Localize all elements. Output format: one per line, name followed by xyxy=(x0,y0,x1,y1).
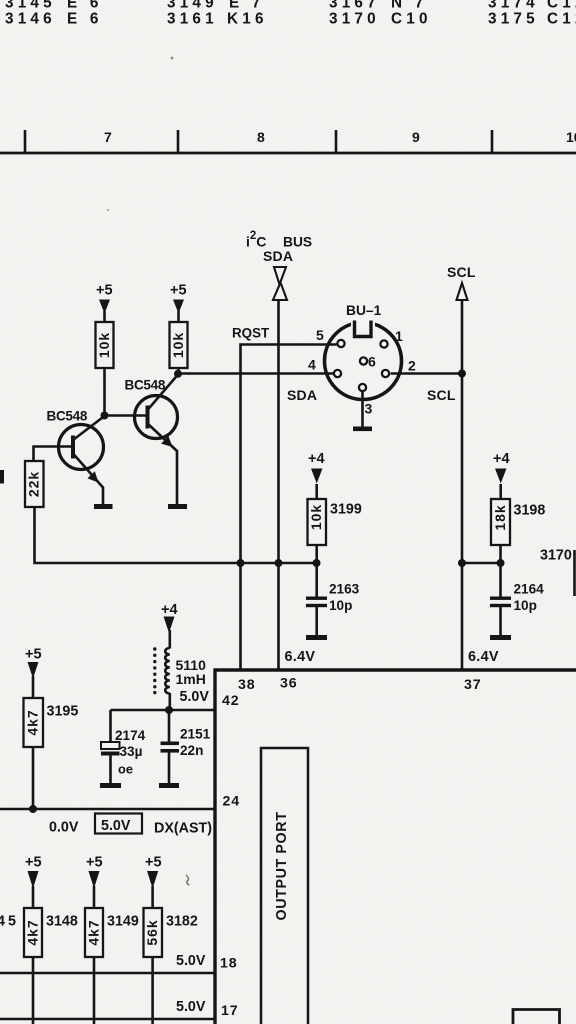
resistor 22k xyxy=(25,461,44,507)
svg-text:4k7: 4k7 xyxy=(25,709,41,735)
svg-text:22n: 22n xyxy=(180,743,203,758)
capacitor 2151 22n xyxy=(161,727,211,759)
sheet border ruler line xyxy=(0,152,576,155)
svg-text:5.0V: 5.0V xyxy=(180,689,210,705)
ground bar 2163 xyxy=(306,635,327,640)
ground bar pin 3 xyxy=(353,427,372,432)
svg-text:2151: 2151 xyxy=(180,727,211,742)
part table row1 col3: 3167 N 7 xyxy=(329,0,427,12)
wire R2 bottom to node xyxy=(177,368,180,374)
supply arrow +5 3149 xyxy=(89,871,100,889)
svg-text:3175: 3175 xyxy=(488,11,539,28)
svg-text:4k7: 4k7 xyxy=(24,919,40,945)
wire arrow to R 3182 xyxy=(151,886,154,908)
svg-text:18k: 18k xyxy=(492,504,508,530)
wire arrow to R 3195 xyxy=(32,676,35,698)
svg-text:3170: 3170 xyxy=(329,11,380,28)
supply arrow +4 #2 xyxy=(495,469,507,484)
junction node R2/collector/pin4 xyxy=(174,370,182,378)
scan speck 1 xyxy=(171,57,174,60)
resistor 3195 4k7 xyxy=(24,698,79,747)
svg-text:5: 5 xyxy=(316,327,324,343)
wire down to cap 2151 xyxy=(168,710,171,742)
svg-text:+5: +5 xyxy=(25,855,42,871)
boxed label 5.0V xyxy=(95,814,142,835)
wire RQST (pin5 to bus) xyxy=(241,345,337,671)
wire arrow to R2 xyxy=(177,311,180,322)
svg-text:10k: 10k xyxy=(170,332,186,358)
svg-text:1mH: 1mH xyxy=(176,671,206,687)
capacitor 2163 10p xyxy=(306,582,360,614)
wire pin4 to transistors xyxy=(178,372,333,375)
ground bar Q1 emitter xyxy=(94,504,113,509)
wire pin 18 horizontal xyxy=(0,972,215,975)
wire R1 bottom to node xyxy=(103,368,106,416)
svg-text:+5: +5 xyxy=(96,283,113,299)
svg-text:10p: 10p xyxy=(329,598,352,613)
supply arrow +4 coil xyxy=(164,617,175,634)
wire SDA vertical xyxy=(277,300,280,670)
svg-text:i2C: i2C xyxy=(246,230,266,250)
ground bar Q2 emitter xyxy=(168,504,187,509)
svg-text:3170: 3170 xyxy=(540,548,572,564)
wire cap 2163 to ground xyxy=(315,607,318,636)
svg-text:3161: 3161 xyxy=(167,11,218,28)
wire R3182 bottom xyxy=(151,957,154,1024)
svg-text:+5: +5 xyxy=(170,283,187,299)
part table row2 col3: 3170 C10 xyxy=(329,11,432,28)
svg-text:RQST: RQST xyxy=(232,326,270,341)
svg-text:+4: +4 xyxy=(308,451,325,467)
wire cap 2164 to ground xyxy=(499,607,502,636)
supply arrow +5 #1 xyxy=(99,300,110,314)
svg-text:18: 18 xyxy=(220,956,237,972)
svg-text:7: 7 xyxy=(104,129,112,145)
svg-text:17: 17 xyxy=(221,1003,238,1019)
supply arrow +5 3182 xyxy=(147,871,158,889)
supply arrow +5 3195 xyxy=(28,662,39,679)
svg-text:42: 42 xyxy=(222,693,239,709)
svg-text:BC548: BC548 xyxy=(125,378,166,393)
svg-text:DX(AST): DX(AST) xyxy=(154,821,212,837)
BU-1 pin 1 xyxy=(380,340,387,347)
wire stub at left edge xyxy=(0,470,4,484)
wire bus SCL to 3198 xyxy=(462,562,501,565)
svg-text:SDA: SDA xyxy=(263,248,293,264)
wire arrow to R 3198 xyxy=(499,484,502,499)
part table row2 col4: 3175 C12 xyxy=(488,11,576,28)
svg-text:SCL: SCL xyxy=(427,387,456,403)
svg-text:33µ: 33µ xyxy=(120,744,143,759)
wire R3199 bottom to cap xyxy=(315,545,318,597)
svg-text:3198: 3198 xyxy=(514,503,546,519)
svg-text:+5: +5 xyxy=(145,855,162,871)
svg-text:K16: K16 xyxy=(227,11,268,28)
wire R3148 bottom xyxy=(32,957,35,1024)
label I2C BUS xyxy=(246,230,312,250)
junction dot SDA/bus xyxy=(275,559,283,567)
junction dot coil node xyxy=(165,706,173,714)
svg-text:36: 36 xyxy=(280,676,297,692)
svg-text:+4: +4 xyxy=(493,451,510,467)
svg-text:38: 38 xyxy=(238,677,255,693)
svg-text:3: 3 xyxy=(365,401,373,417)
SDA bidirectional arrow symbol xyxy=(273,267,287,300)
BU-1 pin 4 xyxy=(334,370,341,377)
svg-text:2164: 2164 xyxy=(514,582,545,597)
wire Q2 base xyxy=(105,414,149,417)
svg-text:SCL: SCL xyxy=(447,264,476,280)
part table row1 col2: 3149 E 7 xyxy=(167,0,265,12)
ground bar 2164 xyxy=(490,635,511,640)
wire arrow to R 3149 xyxy=(93,886,96,908)
transistor Q1 BC548 xyxy=(59,416,105,505)
wire R3149 bottom xyxy=(93,957,96,1024)
BU-1 pin 3 xyxy=(359,384,366,391)
wire 22k bottom + bus to 3199 xyxy=(35,507,317,563)
resistor 10k #2 xyxy=(170,322,188,368)
svg-text:4k7: 4k7 xyxy=(85,919,101,945)
svg-text:2: 2 xyxy=(408,358,416,374)
svg-text:3146: 3146 xyxy=(5,11,56,28)
svg-text:45: 45 xyxy=(0,914,19,930)
IC box outline xyxy=(215,670,576,1024)
wire R3195 bottom xyxy=(32,747,35,809)
resistor 3170 partial at edge xyxy=(573,550,576,596)
capacitor 2164 10p xyxy=(490,582,544,614)
svg-text:OUTPUT PORT: OUTPUT PORT xyxy=(274,811,290,920)
svg-text:1: 1 xyxy=(395,328,403,344)
scan squiggle mark xyxy=(186,875,190,885)
ruler tick 4 xyxy=(491,130,494,153)
part table row2 col2: 3161 K16 xyxy=(167,11,268,28)
wire pin 17 horizontal xyxy=(0,1018,215,1021)
svg-text:3149: 3149 xyxy=(107,914,139,930)
small box bottom right xyxy=(513,1010,560,1024)
transistor Q2 BC548 xyxy=(135,375,179,505)
svg-text:4: 4 xyxy=(308,357,316,373)
BU-1 pin 2 xyxy=(382,370,389,377)
svg-text:5.0V: 5.0V xyxy=(176,953,206,969)
svg-text:6.4V: 6.4V xyxy=(468,649,499,665)
junction dot RQST/bus xyxy=(237,559,245,567)
resistor 3149 4k7 xyxy=(85,908,139,957)
svg-text:C10: C10 xyxy=(391,11,432,28)
svg-text:22k: 22k xyxy=(26,471,42,497)
supply arrow +5 3148 xyxy=(28,871,39,889)
wire arrow to coil xyxy=(169,630,172,649)
wire SCL vertical xyxy=(461,300,464,670)
svg-text:3199: 3199 xyxy=(330,502,362,518)
wire coil to node xyxy=(169,693,172,710)
svg-text:3195: 3195 xyxy=(47,704,79,720)
supply arrow +5 #2 xyxy=(173,300,184,314)
svg-text:SDA: SDA xyxy=(287,387,317,403)
SCL arrow symbol xyxy=(457,283,468,300)
BU-1 pin 5 xyxy=(337,340,344,347)
connector BU-1 body xyxy=(325,316,402,400)
wire node 42 horizontal xyxy=(111,709,216,712)
junction dot bus/R3199 xyxy=(313,559,321,567)
wire arrow to R 3148 xyxy=(32,886,35,908)
wire arrow to R1 xyxy=(103,311,106,322)
resistor 10k #1 xyxy=(96,322,114,368)
svg-text:3182: 3182 xyxy=(166,914,198,930)
svg-text:+4: +4 xyxy=(161,602,178,618)
ground bar 2174 xyxy=(100,783,121,788)
junction dot bus/R3198 xyxy=(497,559,505,567)
part table row1 col4: 3174 C12 xyxy=(488,0,576,12)
resistor 3199 10k xyxy=(308,499,362,545)
supply arrow +4 #1 xyxy=(311,469,323,484)
part table row2 col1: 3146 E 6 xyxy=(5,11,103,28)
svg-text:10k: 10k xyxy=(96,332,112,358)
wire cap 2174 to ground xyxy=(109,756,112,784)
svg-text:2163: 2163 xyxy=(329,582,360,597)
svg-text:oe: oe xyxy=(118,762,133,777)
svg-text:6.4V: 6.4V xyxy=(285,649,316,665)
wire down to cap 2174 xyxy=(109,710,112,742)
svg-text:9: 9 xyxy=(412,129,420,145)
svg-text:10k: 10k xyxy=(308,504,324,530)
junction node R1/Q1 collector/Q2 base xyxy=(101,412,109,420)
wire arrow to R 3199 xyxy=(315,484,318,499)
svg-text:10p: 10p xyxy=(514,598,537,613)
svg-text:C12: C12 xyxy=(547,11,576,28)
svg-text:5.0V: 5.0V xyxy=(101,818,131,834)
svg-text:56k: 56k xyxy=(144,919,160,945)
ruler tick 3 xyxy=(335,130,338,153)
ground bar 2151 xyxy=(159,783,179,788)
svg-text:0.0V: 0.0V xyxy=(49,820,79,836)
resistor 3148 4k7 xyxy=(24,908,78,957)
resistor 3182 56k xyxy=(144,908,198,957)
wire pin 24 horizontal xyxy=(0,808,215,811)
part table row1 col1: 3145 E 6 xyxy=(5,0,103,12)
svg-text:8: 8 xyxy=(257,129,265,145)
svg-text:E 6: E 6 xyxy=(67,11,103,28)
ruler tick 1 xyxy=(24,130,27,153)
svg-text:24: 24 xyxy=(223,794,240,810)
svg-text:6: 6 xyxy=(368,354,376,370)
wire Q1 base from 22k xyxy=(34,447,73,462)
svg-text:BC548: BC548 xyxy=(47,409,88,424)
junction dot SCL/bus xyxy=(458,559,466,567)
junction dot 3195/pin24 xyxy=(29,805,37,813)
svg-text:37: 37 xyxy=(464,677,481,693)
svg-text:5.0V: 5.0V xyxy=(176,999,206,1015)
wire pin2 to SCL xyxy=(391,372,463,375)
wire pin 3 down xyxy=(361,392,364,428)
svg-text:+5: +5 xyxy=(86,855,103,871)
ruler tick 2 xyxy=(177,130,180,153)
resistor 3198 18k xyxy=(491,499,545,545)
wire R3198 bottom to cap xyxy=(499,545,502,597)
inductor 5110 1mH xyxy=(153,647,206,694)
svg-text:3148: 3148 xyxy=(46,914,78,930)
svg-text:+5: +5 xyxy=(25,647,42,663)
BU-1 pin 6 xyxy=(360,357,367,364)
svg-text:2174: 2174 xyxy=(115,728,146,743)
svg-text:10: 10 xyxy=(566,129,576,145)
junction dot pin2/SCL xyxy=(458,370,466,378)
wire cap 2151 to ground xyxy=(168,753,171,784)
capacitor 2174 33u electrolytic xyxy=(101,728,146,777)
scan speck 2 xyxy=(107,209,109,211)
OUTPUT PORT box xyxy=(261,748,308,1024)
